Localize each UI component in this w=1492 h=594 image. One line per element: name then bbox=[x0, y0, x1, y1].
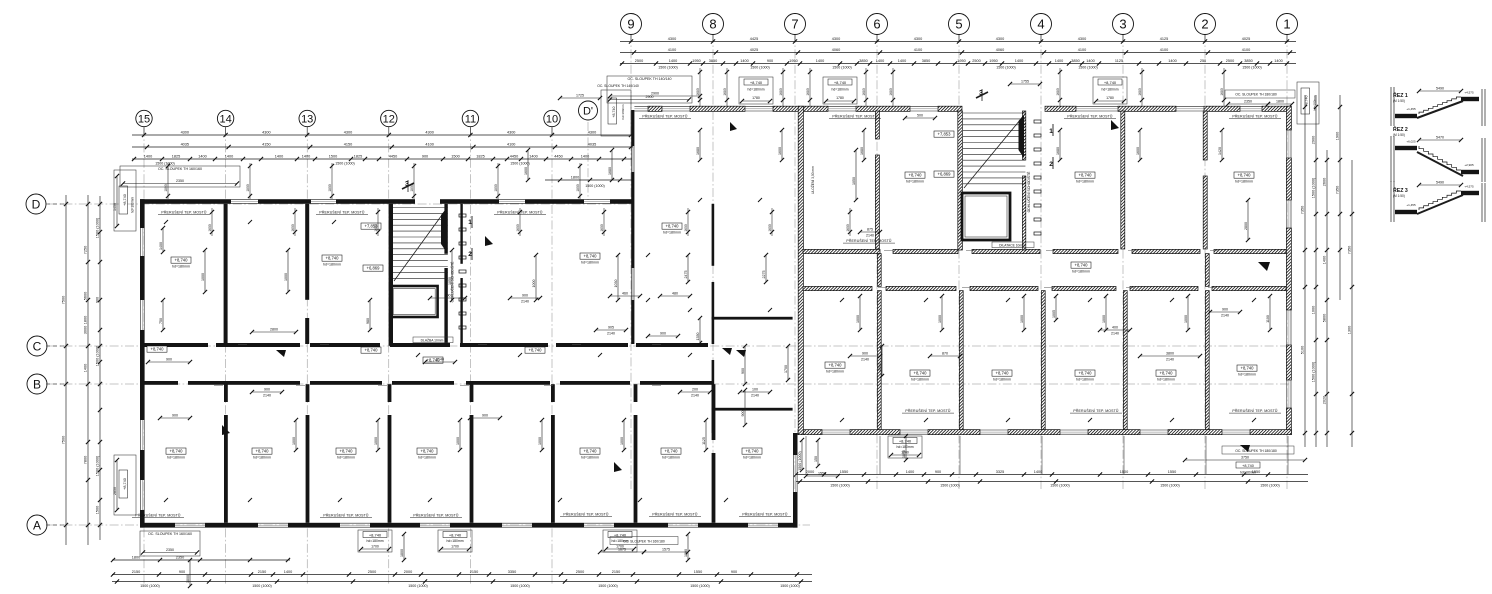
svg-text:hd=180mm: hd=180mm bbox=[1238, 373, 1256, 377]
svg-text:+4,575: +4,575 bbox=[1464, 185, 1474, 189]
svg-text:hd=180mm: hd=180mm bbox=[581, 456, 599, 460]
svg-text:+8,740: +8,740 bbox=[123, 478, 127, 490]
svg-text:1500 (1000): 1500 (1000) bbox=[510, 584, 529, 588]
svg-text:ODHLUČENÍ SCHODIŠTĚ: ODHLUČENÍ SCHODIŠTĚ bbox=[1026, 171, 1031, 212]
svg-text:2275: 2275 bbox=[762, 271, 766, 279]
svg-text:+8,740: +8,740 bbox=[365, 347, 379, 352]
svg-text:1800: 1800 bbox=[400, 549, 404, 557]
svg-text:+8,740: +8,740 bbox=[421, 448, 435, 453]
svg-text:OC. SLOUPEK TH 160/160: OC. SLOUPEK TH 160/160 bbox=[148, 532, 192, 536]
svg-text:hd=180mm: hd=180mm bbox=[581, 261, 599, 265]
svg-text:1400: 1400 bbox=[198, 154, 206, 158]
svg-text:1680: 1680 bbox=[723, 88, 727, 96]
svg-text:750: 750 bbox=[159, 318, 163, 324]
label preruseni bottom right wing 2 bbox=[1070, 408, 1122, 413]
svg-text:1950: 1950 bbox=[957, 59, 965, 63]
svg-text:+1,455: +1,455 bbox=[1406, 203, 1416, 207]
svg-text:1500 (1000): 1500 (1000) bbox=[658, 66, 677, 70]
svg-text:4300: 4300 bbox=[181, 130, 189, 134]
svg-text:PŘERUŠENÍ TEP. MOSTŮ: PŘERUŠENÍ TEP. MOSTŮ bbox=[832, 114, 878, 119]
svg-text:1400: 1400 bbox=[83, 364, 87, 372]
svg-text:1680: 1680 bbox=[779, 88, 783, 96]
label preruseni bottom left wing 2 bbox=[410, 513, 462, 518]
svg-text:1400: 1400 bbox=[1322, 256, 1326, 264]
svg-text:1825: 1825 bbox=[476, 154, 484, 158]
svg-text:1800: 1800 bbox=[83, 316, 87, 324]
svg-text:1400: 1400 bbox=[1015, 59, 1023, 63]
flight numbers left stair bbox=[468, 216, 472, 260]
svg-text:2140: 2140 bbox=[436, 358, 444, 362]
svg-text:1600: 1600 bbox=[1136, 147, 1140, 155]
svg-text:1000: 1000 bbox=[620, 437, 624, 445]
detail frame OC SLOUPEK top-left bbox=[120, 166, 240, 187]
detail frame near D-prime bbox=[558, 84, 702, 136]
svg-text:1005: 1005 bbox=[1052, 310, 1056, 318]
svg-text:4425: 4425 bbox=[750, 37, 758, 41]
svg-text:1000: 1000 bbox=[1020, 315, 1024, 323]
svg-text:1600: 1600 bbox=[778, 147, 782, 155]
svg-text:2140: 2140 bbox=[607, 331, 615, 335]
corridor label right wing bbox=[1071, 262, 1091, 274]
svg-text:7500: 7500 bbox=[61, 436, 65, 444]
svg-text:(M 1:50): (M 1:50) bbox=[1393, 194, 1405, 198]
partition x6 upper right wing bbox=[875, 111, 879, 249]
svg-text:OC. SLOUPEK TH 140/140: OC. SLOUPEK TH 140/140 bbox=[597, 84, 639, 88]
svg-text:1700: 1700 bbox=[878, 363, 882, 371]
svg-text:1680: 1680 bbox=[862, 88, 866, 96]
room label lower-right wing 4 bbox=[1237, 365, 1257, 377]
svg-text:hd=180mm: hd=180mm bbox=[323, 263, 341, 267]
svg-text:1500: 1500 bbox=[451, 154, 459, 158]
label preruseni top left wing 1 bbox=[316, 210, 368, 215]
svg-text:1000: 1000 bbox=[856, 315, 860, 323]
svg-text:4150: 4150 bbox=[344, 142, 352, 146]
svg-text:OC. SLOUPEK TH 180/180: OC. SLOUPEK TH 180/180 bbox=[1235, 93, 1277, 97]
dimension chains right side bbox=[1300, 95, 1354, 447]
room label upper-right wing 2 bbox=[1234, 172, 1254, 184]
svg-text:480: 480 bbox=[672, 292, 678, 296]
grid bubbles 1-9 top bbox=[621, 14, 1298, 35]
exterior wall left wing bottom bbox=[140, 523, 798, 528]
svg-text:+8,740: +8,740 bbox=[1079, 370, 1093, 375]
svg-text:4450: 4450 bbox=[554, 154, 562, 158]
dimension chain bottom of right wing bbox=[794, 470, 1308, 488]
under-wall frame 2 bottom bbox=[438, 530, 472, 552]
svg-text:1500 (1000): 1500 (1000) bbox=[750, 66, 769, 70]
svg-text:4300: 4300 bbox=[1078, 37, 1086, 41]
svg-text:1800: 1800 bbox=[186, 575, 190, 583]
svg-text:4100: 4100 bbox=[507, 142, 515, 146]
svg-text:1400: 1400 bbox=[1055, 59, 1063, 63]
svg-text:+6,025: +6,025 bbox=[1406, 140, 1416, 144]
svg-text:3850: 3850 bbox=[1071, 59, 1079, 63]
svg-text:hd=180mm: hd=180mm bbox=[896, 445, 913, 449]
svg-text:1400: 1400 bbox=[1086, 59, 1094, 63]
room label lower-left wing 4 bbox=[580, 448, 600, 460]
svg-text:4060: 4060 bbox=[832, 48, 840, 52]
acoustic pads right stairwell bbox=[1034, 120, 1041, 235]
rotated label frame left wall upper bbox=[113, 170, 136, 231]
svg-text:1500 (1000): 1500 (1000) bbox=[252, 584, 271, 588]
svg-text:1400: 1400 bbox=[876, 59, 884, 63]
svg-text:hd=180mm: hd=180mm bbox=[1157, 378, 1175, 382]
stairwell walls left wing bbox=[389, 204, 448, 346]
label +6,869 left stair bbox=[363, 265, 383, 271]
svg-text:1600: 1600 bbox=[208, 224, 212, 232]
dimension chains left side bbox=[61, 195, 102, 545]
dimension chains top of right wing bbox=[620, 37, 1296, 70]
svg-text:4100: 4100 bbox=[914, 48, 922, 52]
room label lower-left wing 5 bbox=[661, 448, 681, 460]
svg-text:D: D bbox=[32, 197, 41, 211]
svg-text:1400: 1400 bbox=[1274, 59, 1282, 63]
corridor wall lower right wing bbox=[803, 286, 1286, 290]
room label lower-right wing 1 bbox=[992, 370, 1012, 382]
room label lower-right wing 2 bbox=[1075, 370, 1095, 382]
svg-text:4300: 4300 bbox=[425, 130, 433, 134]
svg-text:+8,740: +8,740 bbox=[612, 106, 616, 117]
svg-text:4035: 4035 bbox=[588, 142, 596, 146]
svg-text:OC. SLOUPEK TH 160/180: OC. SLOUPEK TH 160/180 bbox=[623, 540, 665, 544]
stairwell walls right wing bbox=[958, 111, 1026, 250]
room label lower-left wing 1 bbox=[252, 448, 272, 460]
svg-text:900: 900 bbox=[482, 414, 488, 418]
svg-text:900: 900 bbox=[166, 358, 172, 362]
svg-text:hd=180mm: hd=180mm bbox=[446, 539, 463, 543]
svg-text:PŘERUŠENÍ TEP. MOSTŮ: PŘERUŠENÍ TEP. MOSTŮ bbox=[135, 513, 181, 518]
bathroom wall horizontal y408 bbox=[712, 408, 793, 411]
svg-text:hd=180mm: hd=180mm bbox=[172, 265, 190, 269]
svg-text:1500 (1000): 1500 (1000) bbox=[830, 484, 849, 488]
svg-text:900: 900 bbox=[179, 570, 185, 574]
svg-text:1050: 1050 bbox=[448, 277, 452, 285]
svg-text:+8,740: +8,740 bbox=[1079, 172, 1093, 177]
svg-text:hd=180mm: hd=180mm bbox=[1240, 471, 1256, 475]
svg-text:+8,740: +8,740 bbox=[340, 448, 354, 453]
svg-text:4: 4 bbox=[1037, 17, 1044, 32]
under-wall frame 3 bottom bbox=[603, 530, 637, 552]
svg-text:1575: 1575 bbox=[662, 548, 670, 552]
detail frame OC SLOUPEK right wing top bbox=[607, 76, 692, 103]
svg-text:+8,740: +8,740 bbox=[1238, 172, 1252, 177]
svg-text:1000: 1000 bbox=[1311, 306, 1315, 314]
svg-text:1400: 1400 bbox=[225, 154, 233, 158]
stair handrail dark left wing bbox=[441, 209, 447, 253]
svg-text:1000: 1000 bbox=[374, 437, 378, 445]
svg-text:900: 900 bbox=[935, 470, 941, 474]
svg-text:1680: 1680 bbox=[806, 88, 810, 96]
svg-text:1400: 1400 bbox=[284, 570, 292, 574]
partition wall x13 upper bbox=[305, 204, 309, 344]
svg-text:+8,740: +8,740 bbox=[899, 438, 912, 443]
svg-text:12: 12 bbox=[383, 113, 395, 125]
svg-text:1030: 1030 bbox=[614, 280, 618, 288]
svg-text:2800: 2800 bbox=[270, 328, 278, 332]
label preruseni top right wing 2 bbox=[1064, 114, 1116, 119]
svg-text:+8,740: +8,740 bbox=[666, 223, 680, 228]
svg-text:4300: 4300 bbox=[668, 37, 676, 41]
exterior wall left wing left bbox=[140, 199, 145, 527]
label +6,869 right stair bbox=[934, 171, 954, 177]
svg-text:5800: 5800 bbox=[1322, 314, 1326, 322]
svg-text:hd=180mm: hd=180mm bbox=[906, 180, 924, 184]
svg-text:1600: 1600 bbox=[846, 224, 850, 232]
svg-text:2150: 2150 bbox=[470, 570, 478, 574]
svg-text:1800: 1800 bbox=[132, 555, 140, 559]
svg-text:+8,740: +8,740 bbox=[746, 448, 760, 453]
svg-text:+6,869: +6,869 bbox=[938, 171, 952, 176]
svg-text:7350: 7350 bbox=[1347, 246, 1351, 254]
partition x2 upper right wing bbox=[1203, 111, 1207, 249]
dlazba label left bbox=[413, 337, 453, 343]
elevator shaft right wing bbox=[962, 193, 1010, 240]
svg-text:900: 900 bbox=[1222, 308, 1228, 312]
svg-text:1400: 1400 bbox=[159, 242, 163, 250]
svg-text:2140: 2140 bbox=[866, 233, 874, 237]
svg-text:1500: 1500 bbox=[329, 154, 337, 158]
svg-text:4100: 4100 bbox=[668, 48, 676, 52]
svg-text:1125: 1125 bbox=[1115, 59, 1123, 63]
svg-text:1600: 1600 bbox=[768, 224, 772, 232]
label preruseni bottom right wing 1 bbox=[902, 408, 954, 413]
svg-text:+8,740: +8,740 bbox=[1075, 262, 1089, 267]
svg-text:1500 (1000): 1500 (1000) bbox=[832, 66, 851, 70]
svg-text:500: 500 bbox=[917, 114, 923, 118]
svg-text:+8,740: +8,740 bbox=[151, 346, 165, 351]
svg-text:1500 (1000): 1500 (1000) bbox=[1260, 484, 1279, 488]
label preruseni bottom right wing 3 bbox=[1229, 408, 1281, 413]
svg-text:1400: 1400 bbox=[1168, 59, 1176, 63]
svg-text:+8,740: +8,740 bbox=[750, 80, 763, 85]
svg-text:1050: 1050 bbox=[852, 177, 856, 185]
svg-text:5490: 5490 bbox=[1436, 87, 1444, 91]
room label lower-right wing 0 bbox=[910, 370, 930, 382]
room label lower-left wing 2 bbox=[336, 448, 356, 460]
svg-text:2900: 2900 bbox=[1311, 136, 1315, 144]
svg-text:1825: 1825 bbox=[354, 154, 362, 158]
svg-text:900: 900 bbox=[445, 294, 451, 298]
svg-text:980: 980 bbox=[366, 318, 370, 324]
label preruseni top right wing 1 bbox=[829, 114, 881, 119]
svg-text:1300: 1300 bbox=[1347, 326, 1351, 334]
label preruseni bottom left wing 5 bbox=[739, 512, 791, 517]
svg-text:1400: 1400 bbox=[898, 59, 906, 63]
svg-text:1700: 1700 bbox=[784, 365, 788, 373]
svg-text:hd=180mm: hd=180mm bbox=[1101, 88, 1118, 92]
elevator shaft left wing bbox=[391, 286, 438, 317]
svg-text:2150: 2150 bbox=[132, 570, 140, 574]
stair treads right wing bbox=[963, 113, 1025, 188]
svg-text:4300: 4300 bbox=[996, 37, 1004, 41]
svg-text:400: 400 bbox=[1112, 326, 1118, 330]
svg-text:PŘERUŠENÍ TEP. MOSTŮ: PŘERUŠENÍ TEP. MOSTŮ bbox=[846, 238, 892, 243]
svg-text:5470: 5470 bbox=[1436, 136, 1444, 140]
svg-text:900: 900 bbox=[862, 352, 868, 356]
partition x3 upper right wing bbox=[1121, 111, 1125, 249]
svg-text:3325: 3325 bbox=[996, 470, 1004, 474]
svg-text:DILATACE 10mm: DILATACE 10mm bbox=[999, 244, 1025, 248]
svg-text:+4,575: +4,575 bbox=[1464, 91, 1474, 95]
svg-text:4100: 4100 bbox=[1160, 48, 1168, 52]
svg-text:4035: 4035 bbox=[181, 142, 189, 146]
svg-text:1800: 1800 bbox=[576, 184, 580, 192]
svg-text:2140: 2140 bbox=[861, 357, 869, 361]
svg-text:100: 100 bbox=[752, 388, 758, 392]
svg-text:hd=180mm: hd=180mm bbox=[418, 456, 436, 460]
svg-text:1500 (1000): 1500 (1000) bbox=[95, 455, 99, 476]
svg-text:hd=180mm: hd=180mm bbox=[131, 197, 135, 213]
svg-text:900: 900 bbox=[95, 297, 99, 303]
svg-text:2000: 2000 bbox=[806, 470, 814, 474]
svg-text:2350: 2350 bbox=[1244, 100, 1252, 104]
svg-text:1500 (1000): 1500 (1000) bbox=[585, 184, 604, 188]
exterior wall right wing top bbox=[634, 106, 1291, 111]
svg-text:1400: 1400 bbox=[669, 59, 677, 63]
label preruseni top left wing 2 bbox=[494, 210, 546, 215]
rotated label frame left wall lower bbox=[113, 455, 136, 515]
rotated label frame top right corner bbox=[1297, 82, 1319, 124]
svg-text:905: 905 bbox=[608, 326, 614, 330]
svg-text:1500 (1000): 1500 (1000) bbox=[780, 584, 799, 588]
svg-text:+8,740: +8,740 bbox=[529, 347, 543, 352]
svg-text:hd=180mm: hd=180mm bbox=[366, 539, 383, 543]
room label lower-left wing 3 bbox=[417, 448, 437, 460]
svg-text:+8,740: +8,740 bbox=[1160, 370, 1174, 375]
svg-text:1000: 1000 bbox=[538, 437, 542, 445]
svg-text:1680: 1680 bbox=[696, 88, 700, 96]
svg-text:1400: 1400 bbox=[529, 154, 537, 158]
framed label above top wall x756 bbox=[739, 77, 773, 104]
svg-text:5600: 5600 bbox=[83, 292, 87, 300]
svg-text:1550: 1550 bbox=[818, 472, 826, 476]
room label upper-left wing 1 bbox=[322, 255, 342, 267]
svg-text:+8,740: +8,740 bbox=[996, 370, 1010, 375]
room label upper-right wing 1 bbox=[1075, 172, 1095, 184]
svg-text:1000: 1000 bbox=[1184, 315, 1188, 323]
svg-text:A: A bbox=[33, 518, 41, 532]
svg-text:1950: 1950 bbox=[789, 59, 797, 63]
detail label OC SLOUPEK bottom-right bbox=[1183, 446, 1307, 475]
svg-text:1500: 1500 bbox=[95, 506, 99, 514]
section cut mark 3 left wing bbox=[402, 180, 414, 192]
svg-text:3850: 3850 bbox=[709, 59, 717, 63]
spine wall x7 right wing bbox=[798, 106, 803, 434]
label preruseni bottom left wing 1 bbox=[320, 513, 372, 518]
svg-text:900: 900 bbox=[660, 332, 666, 336]
svg-text:+8,740: +8,740 bbox=[829, 362, 843, 367]
svg-text:3000: 3000 bbox=[83, 326, 87, 334]
svg-text:7800: 7800 bbox=[83, 456, 87, 464]
svg-text:1000: 1000 bbox=[1102, 315, 1106, 323]
partition wall x8 column bbox=[712, 204, 715, 433]
dimension chain bottom of left wing bbox=[111, 570, 812, 588]
partition crossing corridor right wing bbox=[877, 254, 1209, 287]
svg-text:4125: 4125 bbox=[1160, 37, 1168, 41]
svg-text:900: 900 bbox=[767, 59, 773, 63]
svg-text:1900: 1900 bbox=[1335, 132, 1339, 140]
svg-text:1800: 1800 bbox=[164, 184, 168, 192]
svg-text:PŘERUŠENÍ TEP. MOSTŮ: PŘERUŠENÍ TEP. MOSTŮ bbox=[1073, 408, 1119, 413]
svg-text:1550: 1550 bbox=[694, 570, 702, 574]
svg-text:7250: 7250 bbox=[83, 246, 87, 254]
svg-text:1680: 1680 bbox=[1138, 88, 1142, 96]
svg-text:D': D' bbox=[583, 105, 593, 117]
svg-text:1600: 1600 bbox=[524, 167, 528, 175]
svg-text:1500 (1000): 1500 (1000) bbox=[996, 66, 1015, 70]
svg-text:hd=180mm: hd=180mm bbox=[993, 378, 1011, 382]
svg-text:ULOŽENÍ 3,50 mm: ULOŽENÍ 3,50 mm bbox=[810, 166, 815, 194]
svg-text:5: 5 bbox=[955, 17, 962, 32]
svg-text:1600: 1600 bbox=[684, 224, 688, 232]
svg-text:4025: 4025 bbox=[750, 48, 758, 52]
svg-text:15: 15 bbox=[138, 113, 150, 125]
vertical stubs above right wing wall bbox=[696, 68, 1226, 106]
svg-text:870: 870 bbox=[942, 352, 948, 356]
svg-text:DLAŽBA 10mm: DLAŽBA 10mm bbox=[421, 338, 444, 343]
label +7,853 left stair bbox=[361, 223, 381, 229]
room label right wing west lower bbox=[825, 362, 845, 374]
svg-text:1: 1 bbox=[1283, 17, 1290, 32]
svg-text:3350: 3350 bbox=[508, 570, 516, 574]
svg-text:13: 13 bbox=[301, 113, 313, 125]
svg-text:1400: 1400 bbox=[302, 154, 310, 158]
flight numbers right stair bbox=[1049, 124, 1053, 169]
svg-text:2900: 2900 bbox=[646, 95, 654, 99]
interior horizontal dims bbox=[146, 80, 1242, 421]
exterior wall right wing right bbox=[1286, 106, 1291, 434]
svg-text:PŘERUŠENÍ TEP. MOSTŮ: PŘERUŠENÍ TEP. MOSTŮ bbox=[323, 513, 369, 518]
svg-text:hd=180mm: hd=180mm bbox=[826, 370, 844, 374]
room label lower-right wing 3 bbox=[1156, 370, 1176, 382]
svg-text:hd=180mm: hd=180mm bbox=[1235, 180, 1253, 184]
svg-text:1400: 1400 bbox=[906, 470, 914, 474]
svg-text:PŘERUŠENÍ TEP. MOSTŮ: PŘERUŠENÍ TEP. MOSTŮ bbox=[652, 512, 698, 517]
svg-text:+8,740: +8,740 bbox=[584, 448, 598, 453]
window pier dims upper rooms bbox=[208, 208, 852, 236]
svg-text:900: 900 bbox=[522, 294, 528, 298]
partition walls lower row right wing bbox=[877, 291, 1209, 430]
svg-text:PŘERUŠENÍ TEP. MOSTŮ: PŘERUŠENÍ TEP. MOSTŮ bbox=[413, 513, 459, 518]
svg-text:5100: 5100 bbox=[1300, 346, 1304, 354]
label preruseni top right wing 0 bbox=[639, 114, 691, 119]
svg-text:3750: 3750 bbox=[1241, 456, 1249, 460]
svg-text:PŘERUŠENÍ TEP. MOSTŮ: PŘERUŠENÍ TEP. MOSTŮ bbox=[319, 210, 365, 215]
svg-text:1500 (1000): 1500 (1000) bbox=[408, 584, 427, 588]
svg-text:hd=180mm: hd=180mm bbox=[911, 378, 929, 382]
svg-text:PŘERUŠENÍ TEP. MOSTŮ: PŘERUŠENÍ TEP. MOSTŮ bbox=[742, 512, 788, 517]
svg-text:8: 8 bbox=[709, 17, 716, 32]
section cut mark 3 right wing bbox=[976, 89, 988, 101]
svg-text:+8,740: +8,740 bbox=[584, 253, 598, 258]
svg-text:1550: 1550 bbox=[1168, 470, 1176, 474]
svg-text:250: 250 bbox=[1200, 59, 1206, 63]
svg-text:1675: 1675 bbox=[618, 548, 626, 552]
svg-text:hd=180mm: hd=180mm bbox=[743, 456, 761, 460]
svg-text:2140: 2140 bbox=[521, 299, 529, 303]
svg-text:7350: 7350 bbox=[1335, 186, 1339, 194]
stair section REZ 3 bbox=[1391, 181, 1485, 222]
svg-text:ŘEZ 3: ŘEZ 3 bbox=[1393, 186, 1408, 194]
grid axis dash-dot lines (rows A-D) bbox=[48, 122, 1290, 525]
svg-text:4100: 4100 bbox=[1242, 48, 1250, 52]
svg-text:C: C bbox=[33, 339, 42, 353]
svg-text:4025: 4025 bbox=[1242, 37, 1250, 41]
svg-text:900: 900 bbox=[731, 570, 737, 574]
svg-text:PŘERUŠENÍ TEP. MOSTŮ: PŘERUŠENÍ TEP. MOSTŮ bbox=[161, 210, 207, 215]
text odhluceni schodiste left bbox=[450, 261, 455, 302]
svg-text:+8,740: +8,740 bbox=[1241, 365, 1255, 370]
label preruseni bottom left wing 4 bbox=[649, 512, 701, 517]
